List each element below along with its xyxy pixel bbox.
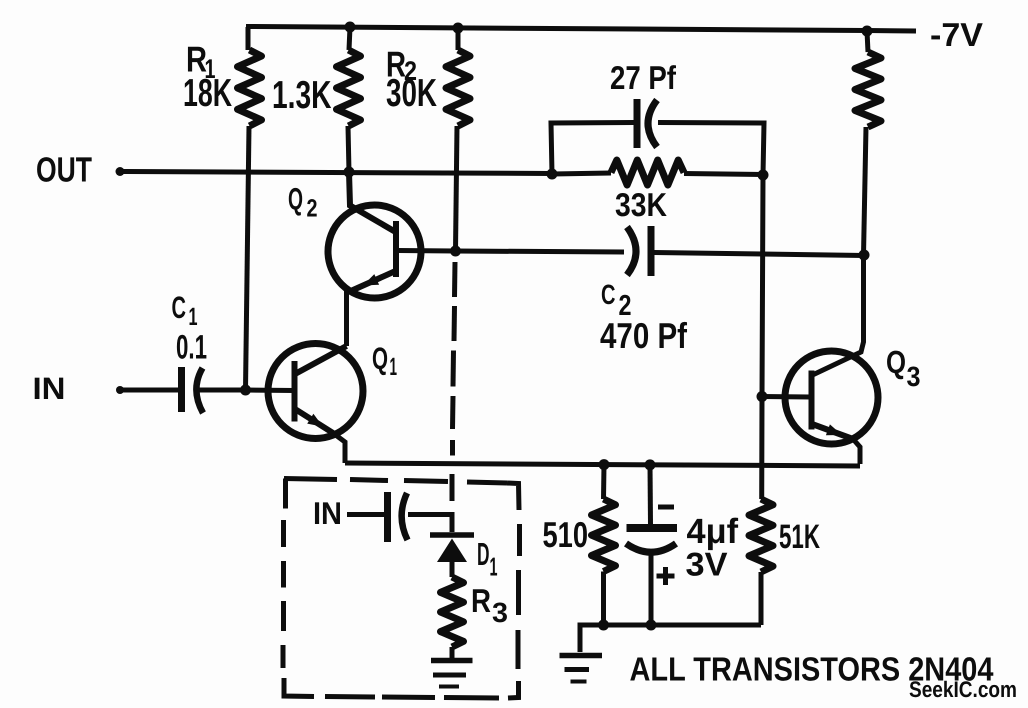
svg-text:510: 510 (543, 514, 589, 555)
svg-text:33K: 33K (615, 186, 667, 223)
svg-text:IN: IN (33, 371, 66, 406)
svg-text:0.1: 0.1 (176, 329, 207, 367)
svg-text:1: 1 (490, 552, 498, 582)
svg-text:1: 1 (390, 353, 398, 381)
svg-text:Q: Q (288, 182, 303, 217)
svg-text:27 Pf: 27 Pf (610, 59, 677, 96)
svg-text:-7V: -7V (930, 16, 983, 53)
svg-text:1: 1 (189, 303, 198, 331)
svg-text:Q: Q (372, 341, 388, 376)
svg-text:R: R (471, 582, 491, 619)
svg-text:C: C (172, 290, 187, 325)
svg-text:3V: 3V (686, 546, 728, 583)
svg-text:C: C (601, 279, 616, 310)
svg-text:470 Pf: 470 Pf (600, 315, 688, 356)
svg-text:51K: 51K (779, 518, 820, 556)
svg-text:OUT: OUT (36, 151, 92, 190)
svg-text:3: 3 (907, 361, 921, 392)
svg-text:2: 2 (307, 195, 318, 223)
svg-text:30K: 30K (386, 72, 437, 115)
svg-text:1.3K: 1.3K (272, 74, 332, 117)
svg-text:D: D (477, 536, 490, 572)
svg-text:3: 3 (492, 597, 508, 628)
svg-text:IN: IN (313, 495, 342, 531)
svg-text:18K: 18K (183, 72, 232, 115)
svg-text:Q: Q (886, 344, 906, 380)
svg-text:SeekIC.com: SeekIC.com (909, 677, 1017, 702)
